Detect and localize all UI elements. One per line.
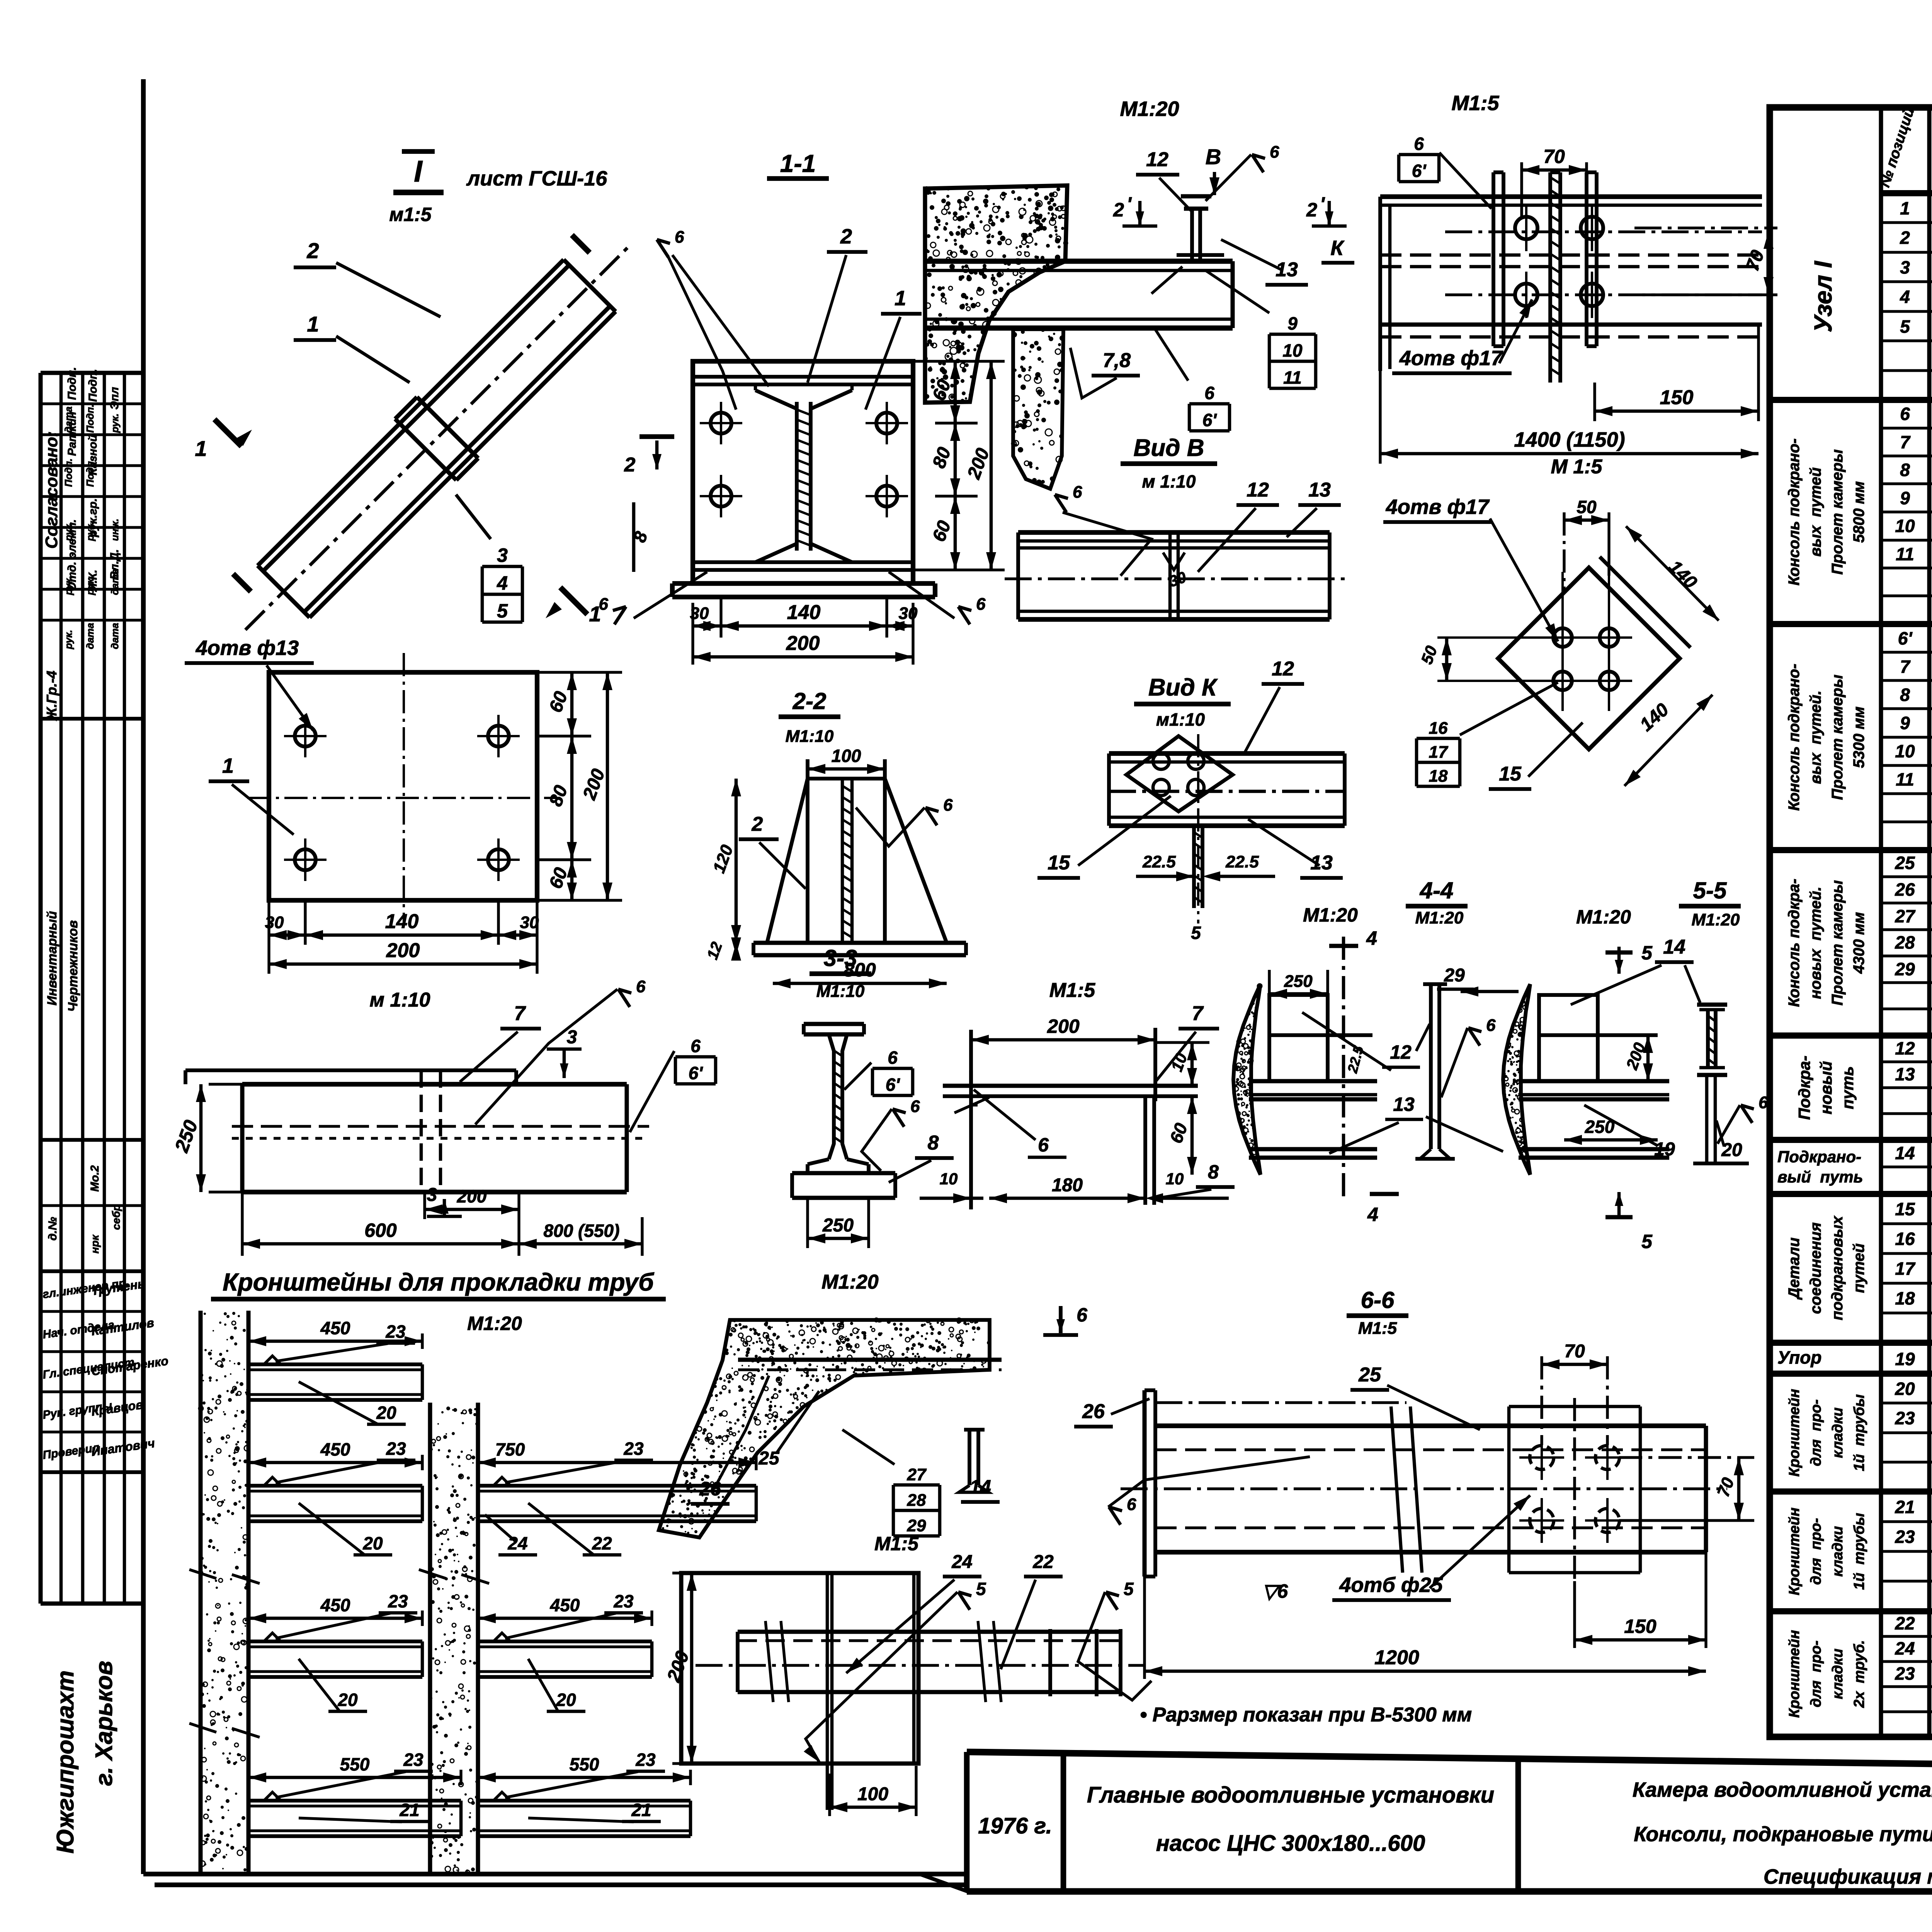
node I leader 2 [336,263,440,317]
section 4-4 concrete crescent [1233,984,1260,1175]
svg-text:М1:10: М1:10 [816,982,865,1001]
diamond plate labels 16 17 18 [1417,737,1460,740]
svg-text:дата: дата [109,569,121,595]
svg-text:2: 2 [1113,199,1124,221]
svg-text:30: 30 [899,604,918,623]
svg-text:15: 15 [1499,763,1522,785]
svg-text:27: 27 [907,1465,927,1484]
svg-text:16: 16 [1895,1229,1915,1249]
svg-text:2: 2 [306,238,319,263]
svg-text:Кронштейны для прокладки труб: Кронштейны для прокладки труб [223,1268,655,1296]
svg-text:Консоли, подкрановые пути, кро: Консоли, подкрановые пути, кронштейны, у… [1634,1823,1932,1846]
column 2 bracket a [478,1484,756,1488]
svg-text:6: 6 [1073,483,1082,502]
console detail channel 14 [968,1430,971,1485]
column 1 break marks [189,1570,216,1578]
console M1:20 beam [925,259,1233,264]
svg-text:5: 5 [1900,316,1910,337]
svg-text:▽6: ▽6 [1262,1580,1288,1602]
svg-text:путь: путь [1838,1066,1857,1109]
svg-text:3-3: 3-3 [824,945,857,971]
svg-text:М1:20: М1:20 [1120,97,1179,121]
section 5-5 console outline [1539,995,1598,1081]
svg-text:15: 15 [1895,1199,1915,1219]
svg-text:инж.: инж. [109,519,121,541]
svg-text:4отв ф17: 4отв ф17 [1399,347,1503,370]
svg-text:4300 мм: 4300 мм [1850,912,1867,974]
svg-text:22.5: 22.5 [1142,852,1176,871]
svg-text:5300 мм: 5300 мм [1850,706,1867,768]
node I leader 1 [336,336,410,383]
specification table grid [1770,107,1932,1737]
node I leaders 3 4 5 [456,495,491,539]
svg-text:1й трубы: 1й трубы [1851,1394,1867,1471]
svg-text:17: 17 [1429,743,1449,762]
section 1-1 bolt holes [711,413,731,434]
svg-text:18: 18 [1429,767,1448,786]
section 3-3 rail [804,1022,864,1026]
section 4-4 rail post [1429,984,1433,1149]
svg-text:6: 6 [910,1097,920,1116]
svg-text:140: 140 [787,601,821,624]
svg-text:2: 2 [1900,228,1910,248]
svg-text:21: 21 [1895,1497,1915,1517]
svg-text:5: 5 [1641,942,1653,964]
svg-text:6': 6' [1898,628,1913,648]
svg-text:М1:20: М1:20 [821,1271,878,1293]
svg-text:вый путь: вый путь [1777,1168,1863,1186]
base plate bottom dims [304,900,306,945]
svg-text:Подкрано-: Подкрано- [1777,1148,1861,1166]
section 6-6 break marks [1145,1388,1155,1392]
svg-text:12: 12 [1247,479,1269,501]
svg-text:м1:5: м1:5 [389,204,432,225]
svg-text:Подп.: Подп. [63,458,74,487]
svg-text:• Рарзмер показан при В-5300 м: • Рарзмер показан при В-5300 мм [1140,1704,1472,1726]
svg-text:23: 23 [388,1591,408,1611]
section 1-1 weld flags [657,240,668,257]
section 4-4 cut marks 4 [1329,944,1358,948]
svg-text:насос ЦНС 300х180...600: насос ЦНС 300х180...600 [1156,1831,1425,1856]
svg-text:1976 г.: 1976 г. [978,1813,1052,1838]
console detail labels 27 28 29 [893,1483,940,1487]
svg-text:4: 4 [1367,1204,1378,1225]
svg-text:50: 50 [1577,497,1597,517]
svg-text:2-2: 2-2 [793,688,827,714]
svg-text:24: 24 [951,1552,972,1572]
svg-text:11: 11 [1283,367,1302,388]
section 2-2 gusset [808,767,885,771]
svg-text:23: 23 [1895,1663,1915,1684]
svg-text:М1:20: М1:20 [1303,904,1358,926]
svg-text:м 1:10: м 1:10 [1142,471,1196,492]
svg-text:2: 2 [1306,199,1317,221]
column 2 bracket c [478,1799,690,1803]
svg-text:25: 25 [1358,1364,1381,1386]
section 4-4 console outline [1269,995,1328,1081]
svg-text:30: 30 [520,913,539,932]
svg-text:Главные водоотливные установки: Главные водоотливные установки [1087,1782,1494,1808]
console M1:20 rail on top [1184,207,1208,211]
svg-text:16: 16 [1429,719,1448,738]
svg-text:Пролет камеры: Пролет камеры [1829,449,1846,575]
svg-text:7,8: 7,8 [1103,349,1131,372]
svg-text:подкрановых: подкрановых [1829,1215,1846,1320]
svg-text:г. Харьков: г. Харьков [91,1661,117,1786]
svg-text:путей: путей [1850,1243,1867,1293]
svg-text:6: 6 [976,595,986,614]
left stamp upper signature rows [39,373,43,1604]
svg-text:М1:5: М1:5 [874,1533,919,1554]
svg-text:4отв ф17: 4отв ф17 [1386,495,1490,519]
svg-text:4-4: 4-4 [1420,878,1454,903]
section 6-6 dims bottom [1575,1638,1706,1642]
svg-text:Подп.: Подп. [87,369,99,402]
base plate holes [269,672,537,900]
svg-text:м 1:10: м 1:10 [370,989,430,1011]
svg-text:дата: дата [63,406,74,433]
svg-text:В: В [1206,145,1221,169]
svg-text:23: 23 [623,1439,644,1459]
svg-text:6': 6' [1202,410,1218,430]
svg-text:750: 750 [495,1439,525,1459]
svg-text:550: 550 [570,1754,599,1774]
svg-text:7: 7 [1900,656,1911,677]
vid V labels [1055,495,1066,512]
svg-text:рук.: рук. [84,522,96,541]
svg-text:1: 1 [895,287,906,310]
svg-text:2х труб.: 2х труб. [1851,1640,1867,1708]
svg-text:21: 21 [631,1800,651,1820]
svg-text:30: 30 [265,913,284,932]
svg-text:12: 12 [1272,658,1294,680]
frame bottom left segment [155,1883,967,1887]
column 1 bracket d [248,1799,461,1803]
svg-text:6: 6 [675,228,684,247]
svg-text:лист ГСШ-16: лист ГСШ-16 [466,167,608,190]
svg-text:рук.: рук. [84,576,96,595]
svg-text:20: 20 [337,1690,358,1710]
svg-text:250: 250 [822,1215,854,1236]
svg-text:8: 8 [1208,1161,1219,1183]
svg-text:14: 14 [1895,1143,1915,1163]
base plate right dims [537,735,591,737]
svg-text:1й трубы: 1й трубы [1851,1513,1867,1590]
svg-text:М1:20: М1:20 [467,1313,522,1334]
svg-text:13: 13 [1308,479,1331,501]
svg-text:20: 20 [1895,1379,1915,1399]
channel 22 break marks [681,1573,918,1764]
svg-text:180: 180 [1052,1175,1083,1196]
svg-text:Согласовано:: Согласовано: [42,431,61,549]
svg-text:5: 5 [1641,1231,1653,1252]
diamond plate bolt holes [1498,568,1680,749]
svg-text:22: 22 [1895,1613,1915,1633]
svg-text:5: 5 [1124,1579,1134,1599]
bracket plan centerlines [1380,194,1762,199]
svg-text:12: 12 [1146,148,1168,171]
column 2 bracket b [478,1639,652,1643]
svg-text:150: 150 [1624,1616,1656,1637]
svg-text:для про-: для про- [1808,1518,1824,1585]
svg-text:13: 13 [1393,1094,1415,1115]
svg-text:140: 140 [385,910,419,933]
svg-text:23: 23 [386,1439,406,1459]
svg-text:Консоль подкра-: Консоль подкра- [1786,879,1803,1007]
bracket plan dim 70 top [1520,162,1523,216]
svg-text:Пролет камеры: Пролет камеры [1829,675,1846,800]
column 1 bracket b [248,1484,422,1488]
left concrete column 2 [428,1403,432,1874]
svg-text:24: 24 [1895,1638,1915,1658]
svg-text:70: 70 [1543,146,1565,167]
upor plate drawing [971,1038,1155,1042]
svg-text:28: 28 [1895,932,1915,952]
svg-text:26: 26 [1895,879,1915,900]
section 5-5 concrete crescent [1503,984,1530,1175]
section 5-5 cut marks 5 [1605,951,1633,955]
svg-text:М1:20: М1:20 [1415,908,1464,927]
svg-text:21: 21 [399,1800,419,1820]
svg-text:23: 23 [1895,1527,1915,1547]
svg-text:9: 9 [1900,488,1910,508]
svg-text:Консоль подкрано-: Консоль подкрано- [1786,664,1803,811]
svg-text:10: 10 [1895,516,1915,536]
section 1-1 base plate [693,361,913,583]
bracket plan bolt circles [1515,217,1537,239]
svg-text:6: 6 [1270,143,1279,162]
svg-text:вых путей: вых путей [1807,467,1824,556]
svg-text:М1:20: М1:20 [1576,906,1631,928]
svg-text:6': 6' [689,1063,704,1083]
svg-text:150: 150 [1660,386,1694,409]
svg-text:26: 26 [1082,1400,1105,1423]
svg-text:кладки: кладки [1830,1649,1846,1699]
svg-text:13: 13 [1895,1064,1915,1084]
svg-text:кладки: кладки [1830,1408,1846,1458]
svg-text:800 (550): 800 (550) [544,1221,620,1241]
svg-text:Детали: Детали [1786,1238,1803,1300]
long plate plan 250 drawing [185,1068,516,1072]
svg-text:6': 6' [886,1075,901,1095]
svg-text:14: 14 [1663,936,1685,958]
svg-text:Консоль подкрано-: Консоль подкрано- [1786,439,1803,586]
svg-text:6: 6 [943,796,953,815]
svg-text:5: 5 [497,600,508,622]
svg-text:м1:10: м1:10 [1156,709,1205,730]
node I section cut marks 1 [214,419,241,446]
svg-text:М1:5: М1:5 [1049,979,1096,1002]
svg-text:20: 20 [556,1690,576,1710]
console detail beam line [738,1358,1002,1362]
svg-text:14: 14 [969,1476,991,1498]
svg-text:29: 29 [1444,965,1465,986]
console detail M1:5 concrete wedge [659,1320,990,1537]
section 1-1 bottom dimensions [691,603,694,665]
long plate dims [199,1084,203,1192]
svg-text:Подп.: Подп. [66,367,78,400]
svg-text:6: 6 [888,1048,898,1068]
svg-text:19: 19 [1654,1139,1675,1160]
svg-text:Подп.: Подп. [84,404,96,433]
svg-text:6-6: 6-6 [1361,1287,1395,1313]
diamond plate dim 50 top [1564,519,1609,522]
section 3-3 labels [872,1067,913,1070]
svg-text:6: 6 [1486,1016,1496,1035]
svg-text:для про-: для про- [1808,1641,1824,1708]
svg-text:10: 10 [1895,741,1915,761]
svg-text:100: 100 [832,746,861,766]
section 1-1 right dimensions [935,422,978,424]
svg-text:Чертежников: Чертежников [66,920,80,1012]
svg-text:К: К [1330,236,1345,260]
svg-text:М1:5: М1:5 [1358,1319,1397,1338]
column 1 bracket a [248,1362,422,1366]
svg-text:4отв ф13: 4отв ф13 [196,636,299,660]
svg-text:600: 600 [364,1219,397,1241]
svg-text:3: 3 [497,544,508,566]
svg-text:новый: новый [1817,1061,1835,1114]
svg-text:М 1:5: М 1:5 [1551,456,1603,478]
title block frame [967,1752,1932,1774]
svg-text:Инвентарный: Инвентарный [45,911,60,1006]
svg-text:М1:10: М1:10 [786,727,834,746]
svg-text:Упор: Упор [1777,1347,1821,1367]
svg-text:кладки: кладки [1830,1526,1846,1577]
console M1:20 concrete leg below [1013,329,1063,489]
svg-text:7: 7 [1900,432,1911,452]
svg-text:19: 19 [1895,1349,1915,1369]
svg-text:200: 200 [1047,1015,1080,1037]
svg-text:17: 17 [1895,1259,1916,1279]
svg-text:7: 7 [1192,1002,1204,1025]
svg-text:1: 1 [222,754,234,777]
svg-text:8: 8 [1900,685,1910,705]
svg-text:20: 20 [362,1533,383,1553]
svg-text:4: 4 [497,572,508,594]
svg-text:6: 6 [1127,1495,1136,1514]
svg-text:250: 250 [1284,972,1313,991]
svg-text:200: 200 [386,939,420,962]
svg-text:1: 1 [307,312,319,336]
svg-text:М1:20: М1:20 [1692,910,1740,929]
section 1-1 cut mark 2 left [639,434,674,439]
svg-text:3: 3 [567,1027,577,1048]
svg-text:29: 29 [1895,959,1915,979]
svg-text:450: 450 [320,1318,350,1338]
svg-text:рук.: рук. [63,522,74,541]
svg-text:23: 23 [385,1321,406,1342]
console M1:20 concrete wall [925,185,1067,403]
svg-text:27: 27 [1895,906,1916,926]
svg-text:Подкра-: Подкра- [1795,1056,1813,1120]
svg-text:Вид К: Вид К [1148,674,1218,701]
svg-text:5: 5 [976,1579,986,1599]
vid K splice plate diamond [1109,751,1345,756]
svg-text:Камера водоотливной установки: Камера водоотливной установки на 5 агрег… [1633,1778,1932,1801]
svg-text:нрк: нрк [89,1234,101,1253]
svg-text:4: 4 [1366,927,1377,949]
svg-text:29: 29 [907,1516,926,1535]
svg-text:1-1: 1-1 [780,150,816,177]
svg-text:9: 9 [1287,313,1298,333]
svg-text:1200: 1200 [1374,1646,1419,1669]
svg-text:для про-: для про- [1808,1400,1824,1466]
bracket plan dim 70 right [1634,226,1777,229]
svg-text:6: 6 [1414,134,1424,154]
svg-text:1: 1 [195,436,207,461]
svg-text:4отб ф25: 4отб ф25 [1339,1573,1443,1597]
svg-text:200: 200 [457,1186,487,1206]
svg-text:2: 2 [624,454,636,476]
svg-text:дата: дата [84,623,96,649]
section 6-6 bolt plate region [1507,1406,1511,1573]
svg-text:6: 6 [690,1036,701,1056]
bracket plan dim 150 [1595,410,1759,413]
svg-text:450: 450 [320,1595,350,1615]
svg-text:4: 4 [1900,287,1910,307]
svg-text:д.№: д.№ [46,1217,59,1240]
drawing frame left vertical line [141,79,146,1874]
drawing frame bottom line [143,1872,967,1876]
svg-text:9: 9 [1900,713,1910,733]
svg-text:3: 3 [427,1185,437,1205]
svg-text:23: 23 [635,1750,656,1770]
svg-text:Узел I: Узел I [1809,261,1837,333]
svg-text:Эпл: Эпл [108,387,121,410]
svg-text:вых путей.: вых путей. [1807,690,1824,784]
svg-text:12: 12 [1895,1038,1915,1058]
bracket plan dim 1400(1150) [1380,452,1759,456]
svg-text:новых путей.: новых путей. [1807,887,1824,999]
svg-text:8: 8 [928,1132,939,1154]
svg-text:22: 22 [1032,1552,1054,1572]
svg-text:25: 25 [1895,853,1915,873]
section 5-5 rail I post [1697,1003,1727,1007]
svg-text:Южгипрошахт: Южгипрошахт [52,1670,79,1854]
plan view dims [690,1573,694,1764]
svg-text:3: 3 [1900,257,1910,277]
vid V beam [1018,530,1330,535]
bracket plan top right leaders 6 [1399,153,1439,156]
svg-text:450: 450 [550,1595,580,1615]
svg-text:20: 20 [376,1403,396,1423]
svg-text:6: 6 [1759,1093,1768,1112]
svg-text:30: 30 [690,604,709,623]
svg-text:6: 6 [636,977,646,996]
svg-text:10: 10 [1282,340,1303,361]
svg-text:I: I [414,154,423,188]
svg-text:рук.: рук. [109,413,121,433]
svg-text:10: 10 [940,1170,958,1188]
section 1-1 bottom weld flags [614,607,626,624]
svg-text:Ж.Гр.-4: Ж.Гр.-4 [44,671,60,721]
svg-text:Кронштейн: Кронштейн [1786,1389,1803,1476]
left concrete column 1 [199,1311,203,1874]
svg-text:10: 10 [1166,1170,1184,1188]
svg-text:соединения: соединения [1807,1222,1824,1314]
svg-text:22: 22 [592,1533,612,1553]
svg-text:Пролет камеры: Пролет камеры [1829,880,1846,1005]
section 6-6 cut symbol top [1059,1306,1063,1333]
svg-text:6: 6 [1038,1134,1049,1156]
svg-text:6: 6 [1900,404,1910,424]
svg-text:Спецификация металла.: Спецификация металла. [1764,1865,1932,1888]
column 1 bracket c [248,1639,422,1643]
svg-text:5-5: 5-5 [1693,878,1727,903]
svg-text:70: 70 [1564,1341,1585,1362]
section 6-6 dim 70 top [1542,1363,1607,1366]
